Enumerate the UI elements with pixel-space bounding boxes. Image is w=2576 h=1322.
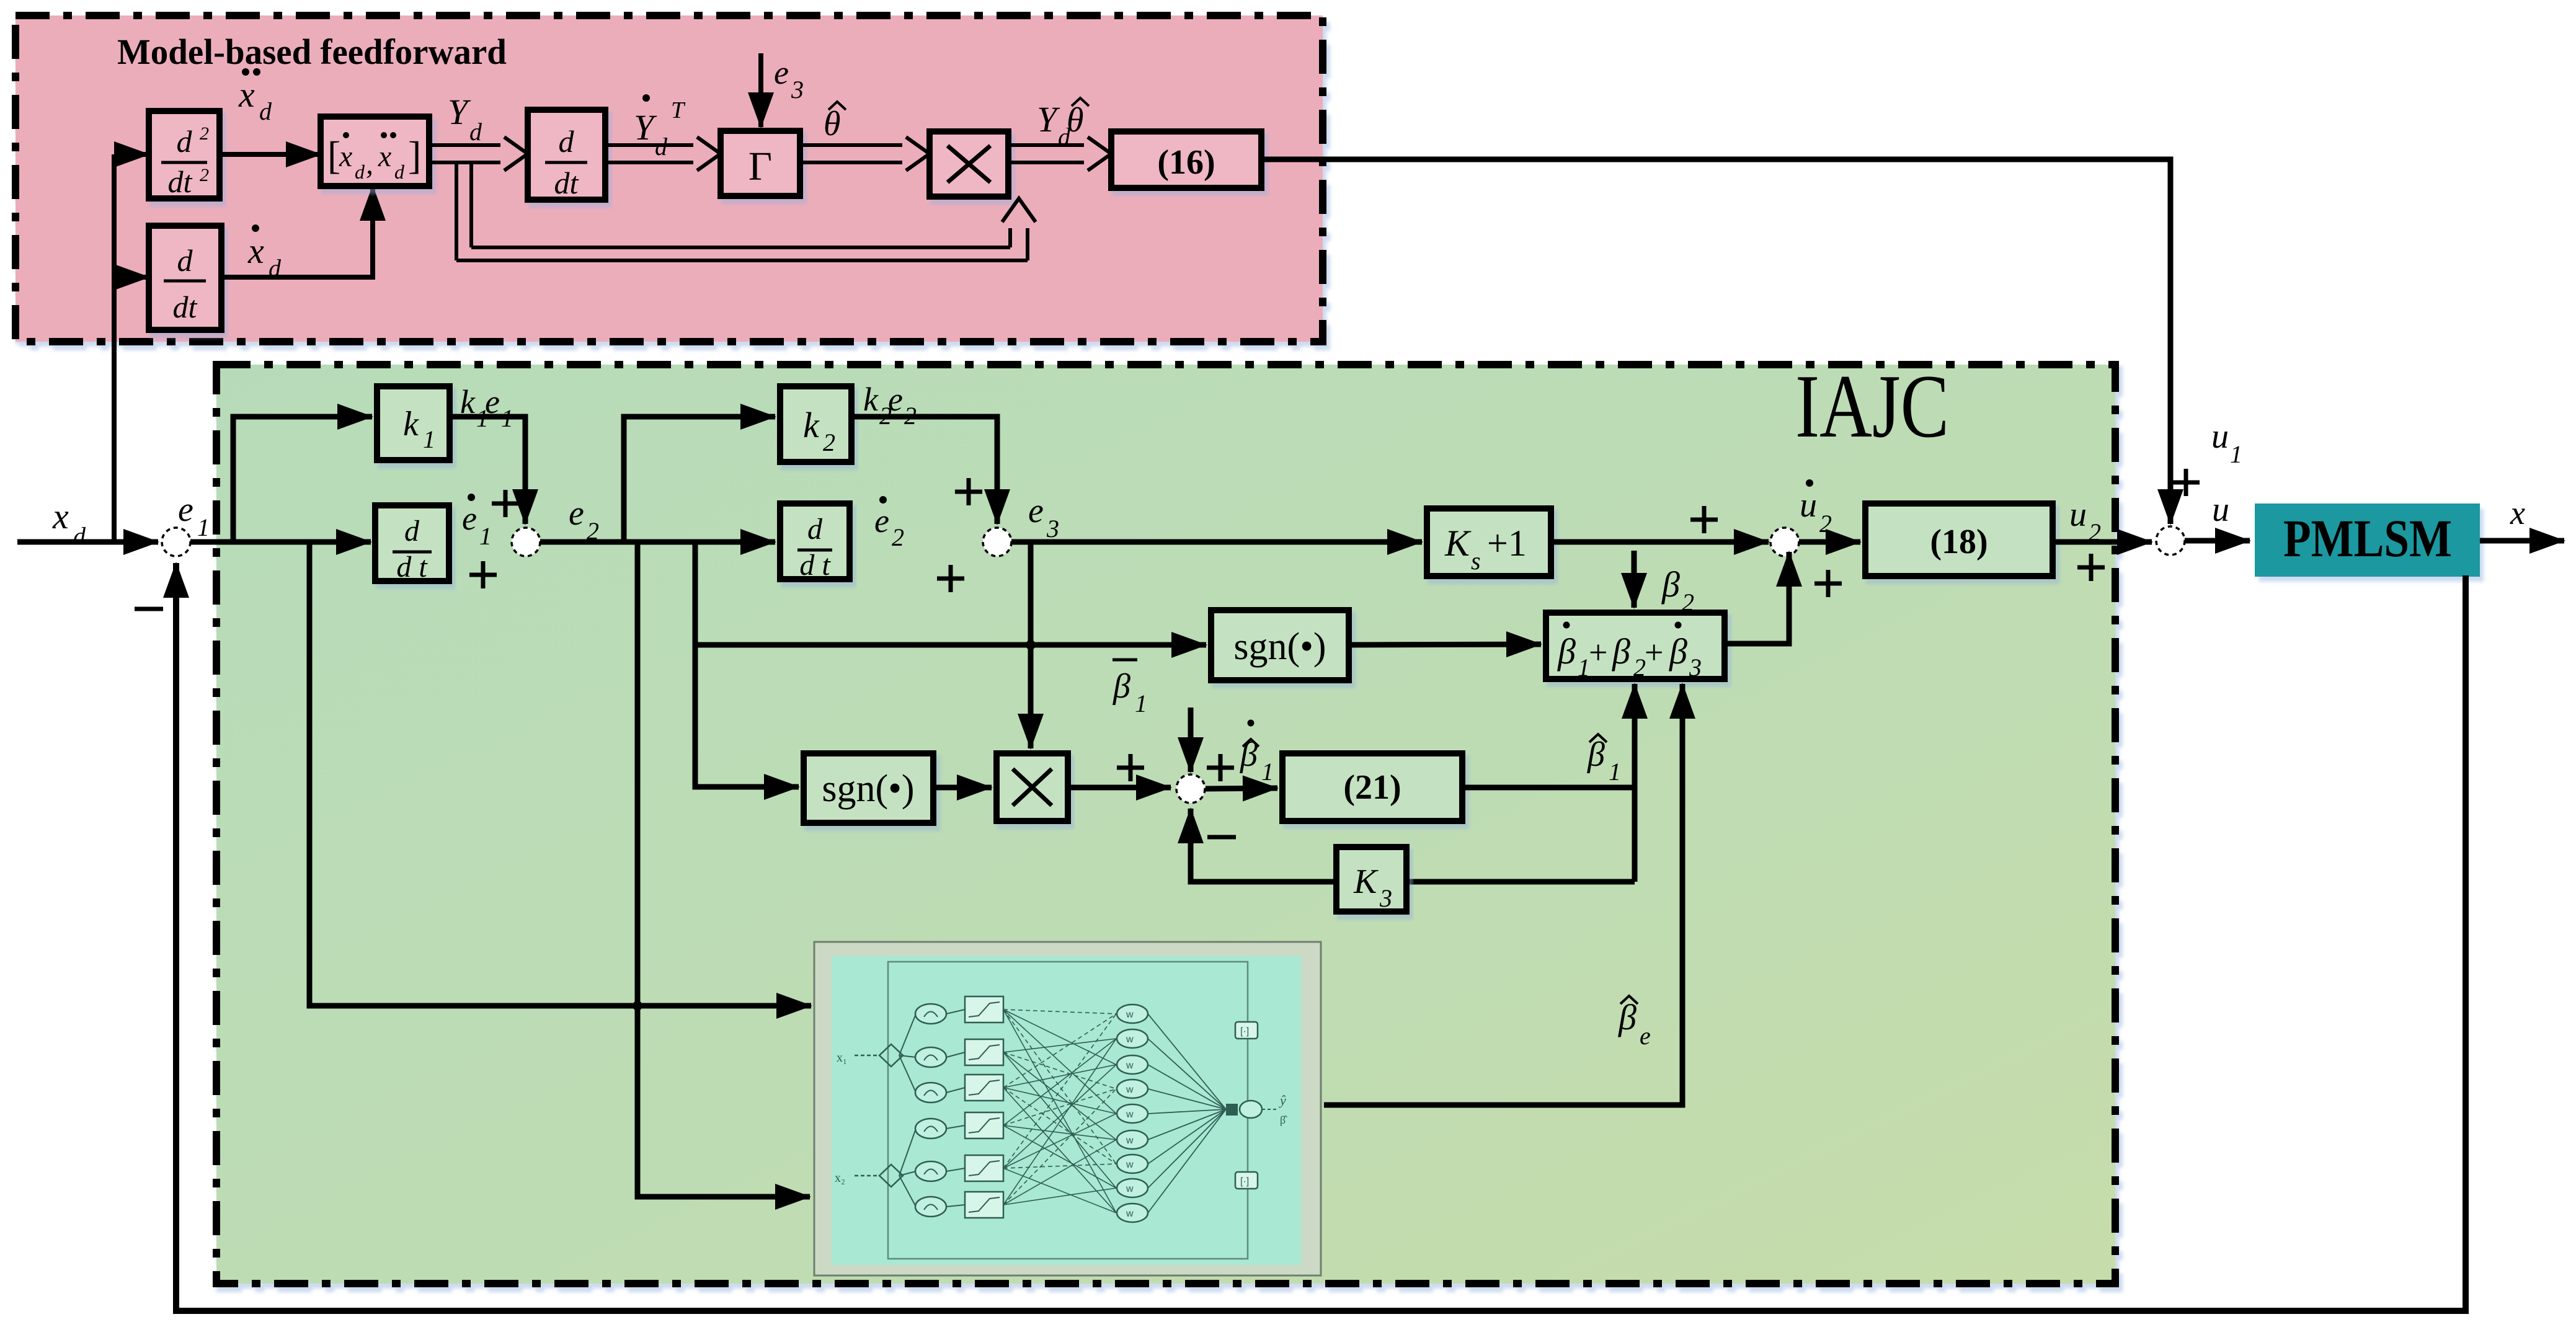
minus feedback into e1 [135, 607, 163, 611]
block d2/dt2 [149, 111, 220, 198]
wire k2 to e3 junction [851, 417, 997, 524]
wire u to PMLSM [2185, 538, 2250, 544]
plus stub into betajunction [1207, 766, 1234, 770]
wire u1 from (16) to u junction [1261, 159, 2170, 524]
svg-text:e: e [178, 490, 193, 529]
summing junction e1 [162, 528, 190, 556]
block multiplier 2 [997, 753, 1068, 821]
svg-text:d: d [355, 161, 365, 183]
svg-text:1: 1 [1609, 758, 1621, 786]
svg-text:x: x [247, 231, 264, 271]
svg-text:1: 1 [1578, 654, 1590, 681]
svg-text:2: 2 [2089, 518, 2101, 546]
svg-text:u: u [1800, 486, 1817, 525]
svg-text:dt: dt [168, 164, 193, 199]
block d/dt (ff) [149, 226, 221, 330]
svg-text:+: + [1589, 634, 1607, 671]
plus u2 into u [2077, 566, 2105, 570]
svg-text:2: 2 [1682, 588, 1694, 616]
wire multiplier to beta junction [1068, 785, 1171, 791]
svg-text:β: β [1669, 631, 1687, 672]
wire branch down to NN input2 [637, 542, 810, 1197]
svg-text:+: + [1645, 634, 1663, 671]
svg-text:s: s [1471, 547, 1481, 575]
hollow wire bracket to d/dt [429, 143, 500, 147]
svg-text:1: 1 [501, 404, 513, 432]
svg-text:2: 2 [892, 523, 904, 551]
svg-text:u: u [2069, 495, 2087, 534]
NN cyan panel [832, 956, 1301, 1265]
svg-text:β: β [1661, 564, 1680, 605]
svg-text:dt: dt [173, 290, 198, 324]
wire corner down to K3 row [1632, 787, 1638, 882]
block (18) [1865, 504, 2053, 576]
svg-text:d: d [259, 97, 272, 125]
svg-text:x: x [339, 140, 352, 173]
svg-text:sgn(•): sgn(•) [822, 768, 914, 810]
summing junction udot2 [1770, 528, 1799, 556]
wire xd input [17, 539, 158, 545]
svg-text:d: d [469, 118, 482, 146]
wire PMLSM output x [2480, 538, 2564, 544]
svg-text:3: 3 [1046, 515, 1059, 543]
svg-text:e: e [888, 381, 903, 418]
svg-text:β: β [1612, 631, 1630, 672]
svg-text:x: x [378, 140, 391, 173]
svg-text:2: 2 [904, 402, 917, 430]
block d/dt 2 [780, 504, 850, 579]
wire (18) to u junction [2053, 539, 2152, 545]
svg-text:x: x [52, 496, 69, 536]
svg-text:[·]: [·] [1240, 1176, 1249, 1187]
wire sgn lower to multiplier [933, 785, 992, 791]
wire branch down to NN input1 [309, 542, 811, 1006]
svg-text:(18): (18) [1930, 523, 1988, 561]
svg-text:d: d [807, 513, 823, 546]
summing junction e2 [512, 528, 540, 556]
summing junction u [2156, 526, 2185, 555]
wire e2 main [540, 539, 775, 545]
svg-text:d: d [177, 243, 193, 278]
svg-text:e: e [774, 54, 789, 91]
wire branch down to sgn blocks [695, 542, 799, 787]
wire beta1hat up into beta-sum [1632, 684, 1638, 787]
wire e1 main [190, 539, 371, 545]
svg-text:k: k [460, 383, 476, 420]
block Ks+1 [1427, 508, 1551, 576]
svg-text:w: w [1126, 1160, 1134, 1170]
svg-text:e: e [485, 383, 500, 420]
wire into d/dt (ff) [114, 275, 149, 280]
svg-text:x: x [238, 74, 255, 115]
svg-text:w: w [1126, 1085, 1134, 1095]
svg-text:1: 1 [479, 522, 492, 550]
svg-text:IAJC: IAJC [1795, 356, 1949, 456]
plus k1e1 into e2 [492, 502, 519, 506]
svg-text:w: w [1126, 1034, 1134, 1045]
svg-text:1: 1 [1261, 758, 1274, 786]
svg-text:sgn(•): sgn(•) [1233, 626, 1326, 668]
block d/dt 1 [375, 505, 449, 581]
wire d/dt to bracket block bottom [221, 186, 373, 277]
svg-text:ŷ: ŷ [1279, 1093, 1286, 1108]
svg-text:e: e [1640, 1022, 1651, 1050]
wire NN output to beta-sum bottom [1324, 684, 1682, 1105]
plus betasum into udot2 [1814, 582, 1842, 586]
svg-text:d t: d t [799, 549, 831, 582]
svg-text:β: β [1557, 631, 1576, 672]
svg-text:]: ] [408, 133, 421, 177]
svg-text:w: w [1126, 1109, 1134, 1120]
svg-text:θ: θ [824, 105, 841, 143]
junction dot sgn tee [1026, 640, 1036, 650]
svg-text:d: d [177, 124, 193, 159]
svg-text:Γ: Γ [748, 144, 772, 189]
svg-text:x₂: x₂ [835, 1171, 845, 1185]
summing junction beta1hat [1176, 774, 1205, 803]
wire branch up to k1 [233, 417, 372, 542]
plus u1 into u [2172, 481, 2200, 485]
svg-text:w: w [1126, 1135, 1134, 1146]
svg-text:PMLSM: PMLSM [2283, 508, 2452, 568]
svg-text:k: k [803, 405, 820, 445]
junction dot nn1 [633, 1001, 642, 1011]
svg-text:d: d [73, 522, 86, 550]
svg-text:2: 2 [200, 165, 209, 185]
wire Ks+1 to udot2 junction [1551, 539, 1769, 545]
wire K3 to beta junction [1191, 809, 1336, 882]
plus k2e2 into e3 [955, 490, 982, 494]
svg-text:2: 2 [1819, 510, 1832, 538]
block PMLSM [2255, 504, 2480, 577]
svg-text:d: d [269, 254, 282, 282]
block k2 [780, 386, 851, 462]
svg-text:w: w [1126, 1184, 1134, 1194]
svg-text:[·]: [·] [1240, 1026, 1249, 1037]
block Gamma [721, 131, 800, 196]
summing junction e3 [983, 528, 1011, 556]
block (21) [1282, 753, 1462, 821]
svg-text:k: k [863, 381, 879, 418]
svg-text:x: x [2510, 494, 2525, 531]
block multiplier (ff) [930, 131, 1008, 197]
minus K3 into betajunction [1207, 835, 1236, 840]
plus e1dot into e2 [469, 573, 497, 577]
svg-text:1: 1 [1135, 690, 1147, 717]
svg-text:dt: dt [554, 166, 579, 200]
NN outer box [814, 942, 1321, 1275]
svg-text:x₁: x₁ [837, 1051, 847, 1065]
svg-text:e: e [569, 494, 584, 533]
svg-text:K: K [1353, 863, 1379, 901]
svg-text:+1: +1 [1487, 523, 1527, 564]
hollow wire Gamma to multiplier [800, 143, 902, 147]
svg-text:3: 3 [1379, 884, 1392, 912]
wire into d2/dt2 [114, 152, 149, 157]
plus e2dot into e3 [937, 577, 964, 581]
wire stub into beta junction top [1188, 708, 1194, 772]
svg-text:1: 1 [197, 513, 210, 541]
svg-text:Model-based feedforward: Model-based feedforward [117, 32, 507, 72]
block beta-sum [1546, 613, 1725, 679]
svg-text:e: e [874, 502, 889, 539]
wire sgn upper to beta-sum [1349, 644, 1541, 645]
block k1 [377, 386, 450, 460]
svg-text:T: T [671, 97, 686, 123]
svg-text:θ: θ [1067, 101, 1084, 140]
svg-text:d: d [559, 124, 575, 159]
wire e3 branch down to multiplier [1028, 542, 1034, 748]
svg-text:2: 2 [1633, 654, 1646, 681]
svg-text:2: 2 [823, 428, 835, 456]
block K3 [1336, 847, 1406, 912]
wire e3 main to Ks+1 [1011, 539, 1422, 545]
IAJC region box (green, dash-dot border) [216, 365, 2115, 1284]
block sgn lower [804, 753, 933, 823]
svg-text:w: w [1126, 1009, 1134, 1020]
svg-text:k: k [403, 405, 419, 443]
svg-text:K: K [1444, 523, 1472, 564]
svg-text:w: w [1126, 1060, 1134, 1071]
wire K3 row right [1406, 879, 1635, 885]
wire (21) output to corner [1462, 785, 1635, 791]
svg-text:d t: d t [396, 551, 428, 583]
block sgn upper [1211, 610, 1349, 680]
plus Ks into udot2 [1690, 518, 1718, 522]
block (16) [1111, 131, 1261, 188]
svg-text:1: 1 [423, 425, 435, 453]
hollow wire Yd to multiplier bottom [455, 162, 458, 260]
wire feedback down-bottom-left [176, 563, 2466, 1311]
svg-text:e: e [1028, 492, 1044, 530]
wire k1 to e2 junction [450, 417, 525, 524]
svg-text:3: 3 [791, 76, 804, 104]
wire beta junction to (21) [1206, 788, 1277, 789]
svg-text:w: w [1126, 1209, 1134, 1219]
block d/dt (pink main) [528, 110, 605, 200]
wire tee to upper sgn [695, 642, 1206, 648]
svg-text:e: e [462, 500, 477, 537]
svg-text:,: , [366, 148, 373, 180]
wire xd branch vertical to differentiators [112, 154, 117, 542]
block bracket [xd-dot, xdd-dot] [321, 117, 429, 186]
svg-text:u: u [2211, 417, 2229, 456]
wire udot2 to (18) [1799, 539, 1860, 545]
svg-text:d: d [404, 515, 420, 548]
svg-text:u: u [2212, 490, 2229, 529]
wire beta2 stub [1632, 551, 1637, 608]
hollow wire d/dt to Gamma [605, 143, 693, 147]
hollow wire multiplier to (16) [1008, 143, 1084, 147]
svg-text:1: 1 [2230, 440, 2242, 468]
plus mult into betajunction [1117, 766, 1144, 770]
wire e3 stub into Gamma [758, 53, 763, 127]
wire d2/dt2 to bracket block [220, 152, 321, 157]
svg-text:(16): (16) [1157, 143, 1215, 182]
svg-text:β: β [1113, 667, 1130, 706]
feedforward region box (pink, dash-dot border) [16, 16, 1323, 342]
svg-text:2: 2 [200, 123, 209, 144]
svg-text:(21): (21) [1343, 768, 1401, 807]
svg-text:3: 3 [1689, 654, 1702, 681]
wire beta-sum to udot2 junction [1725, 552, 1789, 644]
wire branch up to k2 [624, 417, 775, 542]
svg-text:d: d [394, 161, 405, 183]
NN inner frame [888, 962, 1248, 1259]
